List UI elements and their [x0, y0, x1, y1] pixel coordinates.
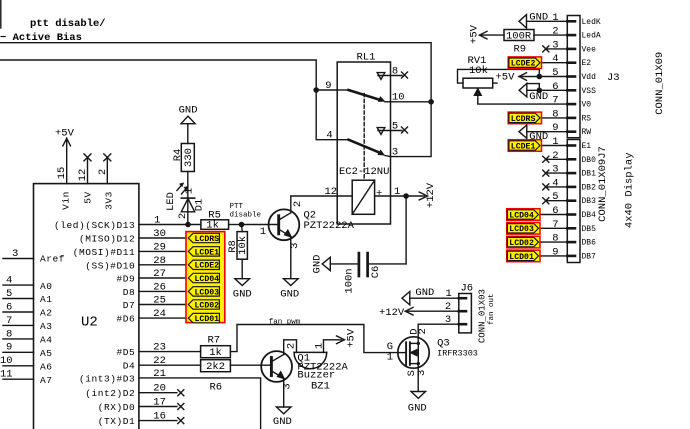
svg-text:2: 2	[445, 301, 451, 313]
svg-text:Buzzer: Buzzer	[297, 369, 335, 381]
svg-text:LED: LED	[165, 192, 177, 211]
svg-text:3: 3	[416, 370, 428, 376]
svg-text:Vin: Vin	[61, 191, 72, 210]
svg-text:330: 330	[183, 148, 195, 167]
svg-text:5: 5	[552, 191, 558, 203]
svg-text:A5: A5	[40, 348, 53, 359]
svg-text:LCD03: LCD03	[509, 225, 534, 234]
svg-text:1: 1	[446, 288, 452, 300]
svg-text:24: 24	[153, 308, 166, 320]
svg-text:LedK: LedK	[582, 18, 601, 27]
svg-text:5: 5	[392, 120, 398, 132]
svg-text:D7: D7	[123, 300, 136, 311]
svg-text:#D6: #D6	[117, 314, 136, 325]
svg-text:LCDE2: LCDE2	[511, 60, 536, 69]
svg-text:Aref: Aref	[40, 254, 65, 265]
svg-text:3: 3	[12, 248, 18, 260]
svg-text:4: 4	[552, 53, 558, 65]
svg-text:CONN_01X03: CONN_01X03	[477, 289, 487, 343]
svg-text:D8: D8	[123, 287, 136, 298]
svg-text:DB2: DB2	[582, 183, 597, 192]
svg-text:D4: D4	[123, 361, 136, 372]
svg-text:RL1: RL1	[357, 52, 376, 64]
svg-text:6: 6	[552, 205, 558, 217]
svg-text:5: 5	[552, 67, 558, 79]
svg-text:Vee: Vee	[582, 45, 597, 54]
svg-text:LCD02: LCD02	[195, 301, 220, 310]
svg-text:8: 8	[6, 328, 12, 340]
svg-text:7: 7	[6, 315, 12, 327]
svg-text:+5V: +5V	[346, 328, 358, 348]
svg-text:LCDE2: LCDE2	[195, 262, 220, 271]
svg-text:A6: A6	[40, 362, 53, 373]
svg-text:29: 29	[153, 241, 166, 253]
svg-text:1: 1	[313, 343, 325, 349]
svg-text:2: 2	[292, 201, 304, 207]
svg-text:LCD04: LCD04	[195, 275, 220, 284]
svg-text:PZT2222A: PZT2222A	[304, 220, 355, 232]
svg-text:2: 2	[177, 213, 189, 219]
svg-text:3: 3	[552, 39, 558, 51]
svg-text:GND: GND	[529, 12, 548, 24]
svg-text:2: 2	[417, 328, 429, 334]
svg-text:A1: A1	[40, 294, 53, 305]
svg-text:23: 23	[153, 342, 166, 354]
svg-text:BZ1: BZ1	[311, 381, 330, 393]
svg-text:+: +	[376, 188, 382, 200]
svg-text:A7: A7	[40, 375, 53, 386]
svg-text:VSS: VSS	[582, 87, 597, 96]
svg-text:+12V: +12V	[425, 182, 437, 208]
svg-text:LCD03: LCD03	[195, 288, 220, 297]
svg-text:26: 26	[153, 281, 166, 293]
svg-text:27: 27	[153, 268, 166, 280]
svg-text:100n: 100n	[344, 268, 356, 293]
svg-text:(RX)D0: (RX)D0	[98, 402, 136, 413]
svg-text:A4: A4	[40, 335, 53, 346]
svg-text:15: 15	[56, 167, 68, 180]
svg-text:(int3)#D3: (int3)#D3	[79, 373, 135, 384]
svg-text:3V3: 3V3	[103, 191, 114, 210]
svg-text:(MOSI)#D11: (MOSI)#D11	[73, 247, 136, 258]
svg-text:1: 1	[394, 186, 400, 198]
svg-text:4: 4	[552, 177, 558, 189]
svg-text:1: 1	[184, 188, 196, 194]
svg-text:DB4: DB4	[582, 211, 597, 220]
svg-text:#D5: #D5	[117, 347, 136, 358]
svg-text:E2: E2	[582, 59, 592, 68]
svg-text:fan pwm: fan pwm	[269, 319, 301, 327]
svg-text:DB1: DB1	[582, 170, 597, 179]
svg-text:6: 6	[6, 301, 12, 313]
svg-text:+12V: +12V	[379, 307, 405, 319]
svg-text:1: 1	[552, 136, 558, 148]
svg-text:9: 9	[552, 122, 558, 134]
svg-text:4x40 Display: 4x40 Display	[624, 152, 636, 228]
svg-text:fan out: fan out	[488, 293, 496, 325]
svg-text:DB0: DB0	[582, 156, 597, 165]
svg-text:LCDRS: LCDRS	[511, 115, 536, 124]
svg-text:R6: R6	[210, 381, 223, 393]
svg-text:EC2-12NU: EC2-12NU	[339, 166, 389, 178]
svg-text:U2: U2	[81, 315, 98, 331]
svg-text:2k2: 2k2	[206, 361, 225, 373]
svg-text:RW: RW	[582, 128, 592, 137]
svg-text:1: 1	[260, 226, 266, 238]
svg-text:9: 9	[552, 246, 558, 258]
svg-text:LCDE1: LCDE1	[511, 142, 536, 151]
svg-text:28: 28	[153, 255, 166, 267]
svg-text:DB5: DB5	[582, 225, 597, 234]
svg-text:GND: GND	[233, 288, 252, 300]
svg-text:2: 2	[97, 169, 109, 175]
svg-text:GND: GND	[273, 416, 292, 428]
svg-text:ptt disable/: ptt disable/	[30, 18, 106, 30]
svg-text:6: 6	[552, 81, 558, 93]
svg-text:LedA: LedA	[582, 32, 601, 41]
svg-text:IRFR3303: IRFR3303	[437, 349, 478, 359]
svg-text:9: 9	[6, 342, 12, 354]
svg-text:12: 12	[77, 169, 89, 182]
svg-text:E1: E1	[582, 142, 592, 151]
svg-text:(SS)#D10: (SS)#D10	[85, 260, 135, 271]
svg-text:Vdd: Vdd	[582, 73, 597, 82]
svg-text:LCDE1: LCDE1	[195, 248, 220, 257]
svg-text:A0: A0	[40, 281, 53, 292]
svg-text:10: 10	[392, 92, 405, 104]
svg-text:10k: 10k	[237, 236, 249, 255]
svg-text:GND: GND	[179, 104, 198, 116]
svg-text:C6: C6	[370, 266, 382, 279]
svg-text:5V: 5V	[83, 191, 94, 204]
svg-text:DB3: DB3	[582, 197, 597, 206]
svg-text:GND: GND	[529, 131, 548, 143]
svg-text:− Active Bias: − Active Bias	[0, 32, 82, 44]
svg-text:16: 16	[153, 411, 166, 423]
svg-text:9: 9	[325, 80, 331, 92]
svg-text:7: 7	[552, 219, 558, 231]
svg-text:22: 22	[153, 355, 166, 367]
svg-text:LCD04: LCD04	[509, 211, 534, 220]
svg-text:LCDRS: LCDRS	[195, 235, 220, 244]
svg-text:GND: GND	[529, 91, 548, 103]
svg-text:R7: R7	[208, 335, 221, 347]
svg-text:(TX)D1: (TX)D1	[98, 416, 136, 427]
svg-text:J6: J6	[461, 282, 474, 294]
svg-text:3: 3	[282, 383, 294, 389]
svg-text:10: 10	[0, 355, 13, 367]
svg-text:A2: A2	[40, 308, 53, 319]
svg-text:1: 1	[552, 12, 558, 24]
svg-text:7: 7	[552, 95, 558, 107]
svg-text:10k: 10k	[469, 65, 488, 77]
svg-text:8: 8	[552, 233, 558, 245]
svg-text:GND: GND	[408, 403, 427, 415]
svg-text:12: 12	[325, 186, 338, 198]
svg-text:1k: 1k	[209, 347, 222, 359]
svg-text:RS: RS	[582, 114, 592, 123]
svg-text:2: 2	[286, 343, 298, 349]
svg-text:11: 11	[0, 369, 13, 381]
svg-text:3: 3	[392, 146, 398, 158]
svg-text:GND: GND	[312, 255, 324, 274]
svg-text:4: 4	[326, 130, 332, 142]
svg-text:disable: disable	[230, 212, 262, 220]
svg-text:R9: R9	[514, 44, 527, 56]
svg-text:DB7: DB7	[582, 252, 597, 261]
svg-text:+5V: +5V	[55, 127, 75, 139]
svg-text:21: 21	[153, 368, 166, 380]
svg-text:1: 1	[154, 215, 160, 227]
svg-text:17: 17	[153, 397, 166, 409]
svg-text:25: 25	[153, 295, 166, 307]
svg-text:GND: GND	[280, 288, 299, 300]
svg-text:(int2)D2: (int2)D2	[85, 388, 135, 399]
svg-text:(MISO)D12: (MISO)D12	[79, 234, 135, 245]
svg-text:3: 3	[552, 164, 558, 176]
svg-text:CONN_01X09: CONN_01X09	[654, 52, 666, 115]
svg-text:(led)(SCK)D13: (led)(SCK)D13	[54, 220, 135, 231]
svg-text:1: 1	[387, 352, 393, 364]
svg-text:30: 30	[153, 228, 166, 240]
svg-text:20: 20	[153, 383, 166, 395]
svg-text:CONN_01X09J7: CONN_01X09J7	[597, 146, 609, 222]
svg-text:4: 4	[6, 275, 12, 287]
svg-text:3: 3	[445, 314, 451, 326]
svg-text:GND: GND	[415, 287, 434, 299]
svg-text:PTT: PTT	[230, 203, 244, 211]
svg-text:D1: D1	[194, 199, 206, 212]
svg-text:8: 8	[392, 65, 398, 77]
svg-text:+5V: +5V	[469, 24, 481, 44]
svg-text:DB6: DB6	[582, 239, 597, 248]
svg-text:LCD01: LCD01	[195, 315, 220, 324]
svg-text:#D9: #D9	[117, 274, 136, 285]
svg-text:LCD01: LCD01	[509, 253, 534, 262]
svg-text:A3: A3	[40, 321, 53, 332]
svg-text:8: 8	[552, 108, 558, 120]
svg-text:LCD02: LCD02	[509, 239, 534, 248]
svg-text:2: 2	[552, 26, 558, 38]
svg-text:2: 2	[552, 150, 558, 162]
svg-text:J3: J3	[607, 72, 620, 84]
svg-text:100R: 100R	[506, 30, 532, 42]
svg-text:1k: 1k	[206, 220, 219, 232]
svg-text:3: 3	[289, 243, 301, 249]
svg-text:+5V: +5V	[496, 72, 516, 84]
svg-text:V0: V0	[582, 101, 592, 110]
svg-text:5: 5	[6, 288, 12, 300]
